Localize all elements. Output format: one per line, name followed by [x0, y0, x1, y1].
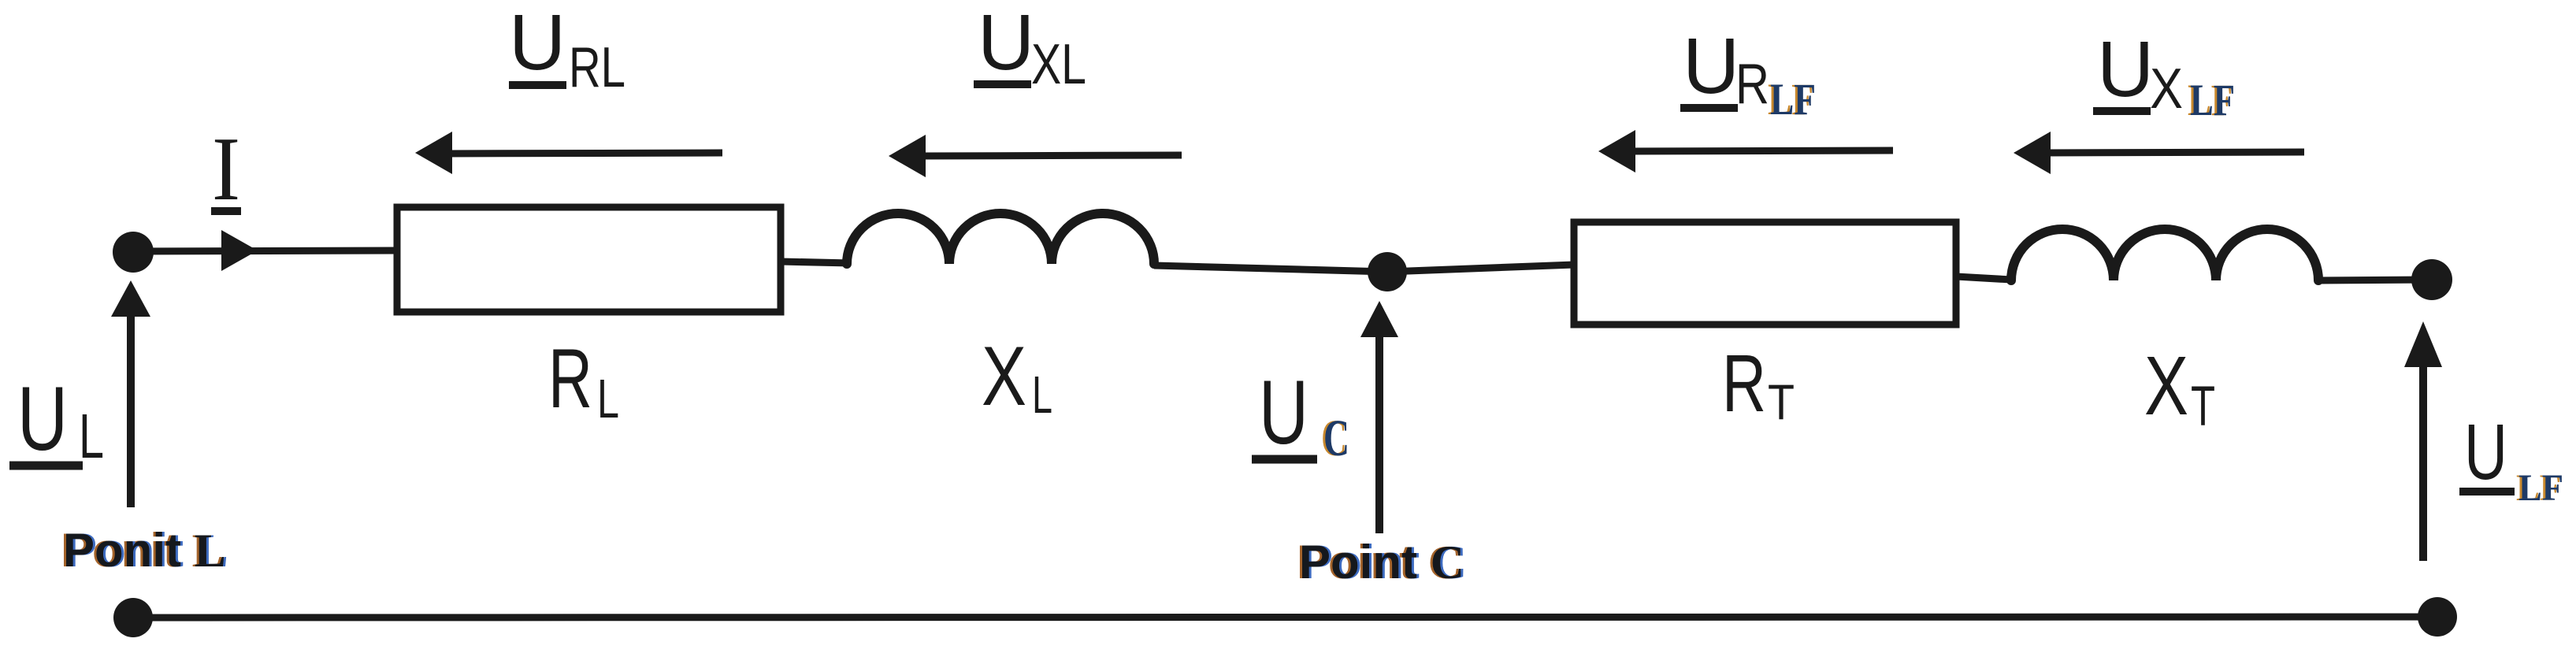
svg-text:U: U — [509, 0, 566, 87]
node L dot — [113, 232, 154, 273]
svg-text:L: L — [1032, 366, 1052, 425]
bottom-right node dot — [2418, 597, 2457, 637]
svg-text:C: C — [1323, 410, 1349, 467]
wire: node C to R_T — [1387, 265, 1574, 272]
svg-text:L: L — [79, 401, 104, 471]
svg-text:U: U — [17, 369, 68, 470]
svg-text:XL: XL — [1031, 33, 1086, 96]
wire: R_T to X_T — [1956, 277, 2011, 280]
bottom return wire — [133, 617, 2437, 618]
svg-text:L: L — [597, 368, 619, 429]
svg-text:LF: LF — [2518, 467, 2563, 509]
wire: R_L to X_L — [781, 262, 851, 263]
svg-text:U: U — [2464, 408, 2507, 496]
wire: X_L to node C — [1154, 265, 1387, 272]
svg-text:R: R — [1735, 53, 1769, 116]
node LF dot — [2411, 259, 2452, 300]
svg-text:R: R — [548, 331, 592, 425]
svg-text:T: T — [2191, 376, 2215, 438]
svg-text:T: T — [1768, 375, 1795, 430]
voltage arrow U_C — [1375, 334, 1383, 533]
voltage arrow U_RL — [446, 153, 722, 154]
svg-text:X: X — [2150, 58, 2183, 121]
svg-text:U: U — [2097, 25, 2154, 113]
voltage arrow U_LF — [2419, 364, 2427, 561]
resistor R_L — [397, 207, 781, 312]
svg-text:U: U — [978, 0, 1034, 87]
svg-text:X: X — [982, 328, 1026, 423]
wire: node L to resistor R_L — [133, 251, 397, 251]
voltage arrow U_XLF — [2044, 152, 2304, 153]
current arrow I head — [221, 230, 258, 271]
bottom-left node dot — [113, 598, 153, 637]
voltage arrow U_RLF — [1629, 150, 1893, 151]
svg-text:U: U — [1683, 22, 1739, 110]
svg-text:LF: LF — [2190, 76, 2235, 125]
node C dot — [1368, 252, 1407, 291]
svg-text:LF: LF — [1770, 75, 1816, 124]
wire: X_T to node LF — [2318, 280, 2432, 280]
voltage arrow U_L — [127, 314, 135, 507]
svg-text:Point C: Point C — [1299, 536, 1464, 588]
svg-text:I: I — [212, 119, 240, 219]
svg-text:RL: RL — [569, 36, 625, 99]
svg-text:U: U — [1259, 362, 1308, 463]
svg-text:X: X — [2144, 340, 2188, 432]
svg-text:R: R — [1722, 338, 1766, 429]
inductor X_L — [847, 213, 1154, 264]
voltage arrow U_XL — [919, 155, 1182, 156]
svg-text:Ponit L: Ponit L — [63, 524, 226, 577]
resistor R_T — [1574, 222, 1956, 325]
inductor X_T — [2011, 229, 2318, 280]
label I underline — [211, 207, 241, 215]
